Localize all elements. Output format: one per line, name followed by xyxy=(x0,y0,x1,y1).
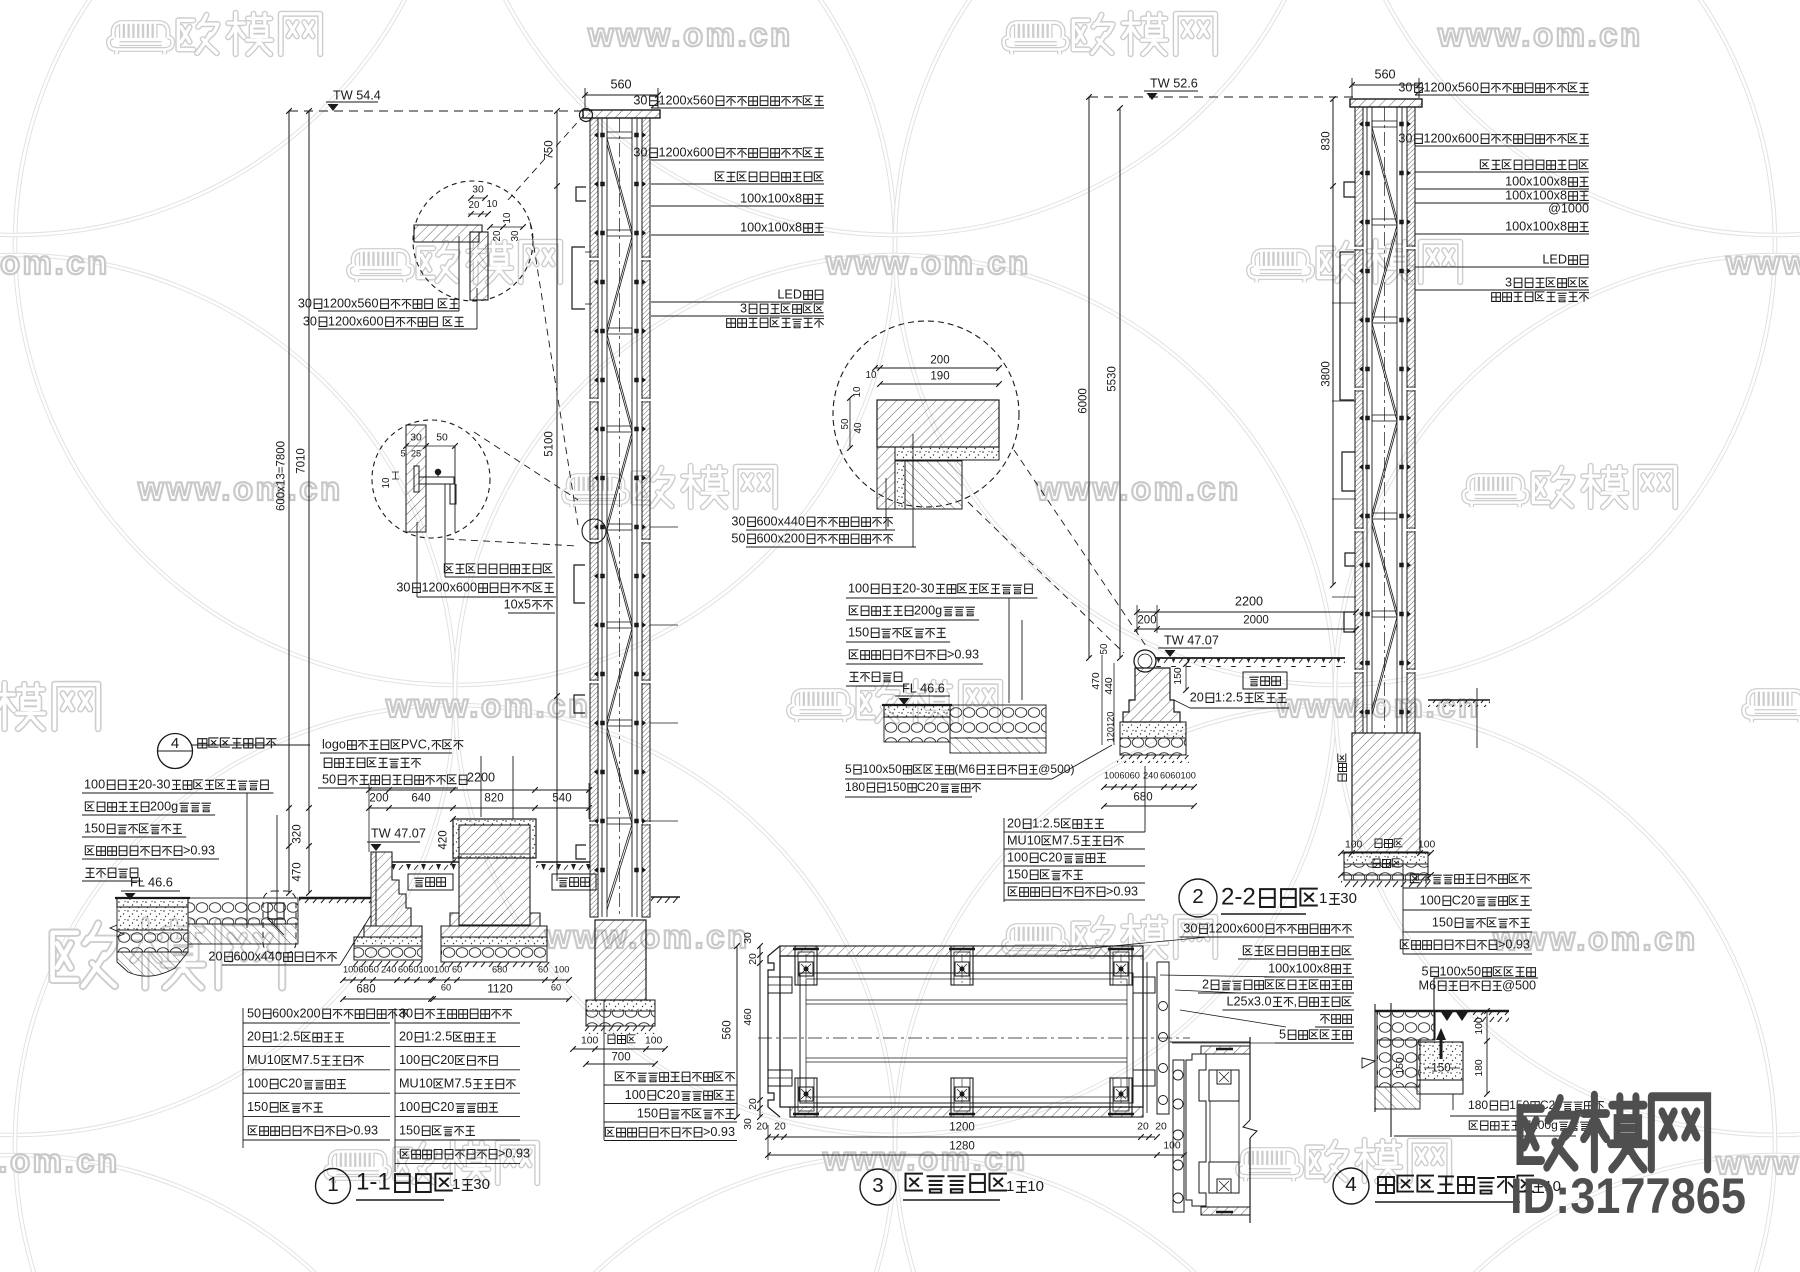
callout circle 4 xyxy=(158,734,193,769)
svg-text:>0.93: >0.93 xyxy=(947,647,979,661)
svg-text:320: 320 xyxy=(291,824,303,843)
svg-text:150: 150 xyxy=(399,1123,420,1137)
planting soil label 2 xyxy=(552,874,596,890)
svg-text:20: 20 xyxy=(748,1098,759,1110)
level marker TW 54.4 xyxy=(333,88,381,102)
label 干挂构件，详专业公司 xyxy=(715,172,823,182)
svg-text:640: 640 xyxy=(411,792,430,804)
label 2厚拉丝面不锈钢镀铜折弯造型 xyxy=(1202,977,1351,991)
svg-text:30: 30 xyxy=(1398,80,1412,94)
rotated detail top hatch xyxy=(1201,1046,1250,1054)
svg-text:@500: @500 xyxy=(1502,978,1536,992)
planting ground line xyxy=(1156,657,1345,659)
ground pavement left xyxy=(117,898,188,907)
svg-text:www.om.cn: www.om.cn xyxy=(825,244,1031,281)
stone panel left xyxy=(590,118,598,917)
svg-text:100: 100 xyxy=(848,581,869,595)
plan bolt plate top 1121 xyxy=(1110,946,1132,985)
svg-text:www.om.cn: www.om.cn xyxy=(1437,16,1643,53)
svg-text:20: 20 xyxy=(208,949,222,963)
level dashed line xyxy=(289,110,592,112)
bracket xyxy=(1344,612,1355,632)
label 3厚镀铜色不锈钢 xyxy=(1505,275,1588,289)
svg-text:20: 20 xyxy=(492,230,503,241)
svg-text:2-2: 2-2 xyxy=(1221,884,1256,911)
dimension line 7010 xyxy=(308,111,310,893)
dimension line 750 / 5100 xyxy=(556,111,558,881)
right strut stubs xyxy=(1332,302,1356,304)
svg-text:50: 50 xyxy=(731,531,745,545)
svg-text:460: 460 xyxy=(743,1008,754,1026)
svg-text:5: 5 xyxy=(400,449,405,459)
svg-text:20: 20 xyxy=(748,953,759,965)
svg-text:30: 30 xyxy=(399,1006,413,1020)
svg-text:150: 150 xyxy=(1432,915,1453,929)
svg-text:M7.5: M7.5 xyxy=(1052,833,1080,847)
detail A dims xyxy=(472,185,484,196)
svg-text:2: 2 xyxy=(1192,885,1204,908)
svg-text:www.om.cn: www.om.cn xyxy=(544,918,750,955)
svg-text:6000: 6000 xyxy=(1077,388,1089,414)
pedestal 1 foot xyxy=(364,926,422,937)
stone panel left xyxy=(1355,107,1363,733)
dimension line 6000 xyxy=(1088,97,1090,658)
svg-text:30: 30 xyxy=(298,296,312,310)
curb dims xyxy=(1099,643,1110,654)
label 5厚不锈钢收边 xyxy=(1279,1027,1351,1041)
label 20厚600x440 xyxy=(208,949,337,963)
svg-text:100x100x8: 100x100x8 xyxy=(1505,219,1567,233)
svg-text:100: 100 xyxy=(399,1053,420,1067)
svg-text:10x5: 10x5 xyxy=(504,597,531,611)
svg-text:6060100: 6060100 xyxy=(1160,771,1196,781)
detail B dims xyxy=(406,445,455,447)
right chord xyxy=(1396,107,1398,733)
svg-text:1200x600: 1200x600 xyxy=(1423,131,1479,145)
svg-text:540: 540 xyxy=(552,792,571,804)
svg-text:10: 10 xyxy=(487,199,498,210)
svg-text:10: 10 xyxy=(866,370,877,381)
svg-text:240: 240 xyxy=(381,965,396,975)
plan main rect xyxy=(780,956,1143,1107)
svg-text:3: 3 xyxy=(740,301,747,315)
svg-text:1200x600: 1200x600 xyxy=(421,580,477,594)
svg-text:1:2.5: 1:2.5 xyxy=(1215,690,1243,704)
svg-text:200g: 200g xyxy=(150,799,178,813)
dimension line 600x13=7800 xyxy=(288,111,290,893)
label @1000 xyxy=(1548,201,1589,215)
plan left dims 30/20/460/20/30 xyxy=(759,946,761,1117)
svg-text:C20: C20 xyxy=(431,1100,454,1114)
rotated detail stepped bracket xyxy=(1186,1054,1206,1206)
svg-text:180: 180 xyxy=(1468,1098,1488,1112)
svg-text:100: 100 xyxy=(399,1100,420,1114)
svg-text:1: 1 xyxy=(1006,1178,1014,1195)
pedestal 1 curb body xyxy=(376,852,411,926)
svg-text:100x50: 100x50 xyxy=(1440,964,1481,978)
svg-text:M7.5: M7.5 xyxy=(444,1076,472,1090)
svg-text:20: 20 xyxy=(247,1030,261,1044)
svg-text:100: 100 xyxy=(1474,1017,1485,1035)
bracket xyxy=(1345,553,1355,566)
svg-text:100x50: 100x50 xyxy=(862,762,902,776)
panel joints xyxy=(589,258,599,260)
stone panel right xyxy=(1407,107,1415,733)
svg-text:100: 100 xyxy=(554,965,569,975)
label waterproof mortar xyxy=(1190,690,1287,704)
svg-text:150: 150 xyxy=(1173,667,1184,685)
material table column 2 xyxy=(399,1006,512,1020)
svg-text:>0.93: >0.93 xyxy=(703,1125,735,1139)
svg-text:560: 560 xyxy=(610,77,631,91)
plan right end plate with bolts xyxy=(1146,962,1148,1113)
svg-text:150: 150 xyxy=(84,821,105,835)
label 由专业公司二次设计 xyxy=(1492,292,1589,302)
svg-text:30: 30 xyxy=(410,433,422,444)
mid material table xyxy=(1007,816,1104,830)
svg-text:ID:3177865: ID:3177865 xyxy=(1510,1168,1746,1224)
svg-text:100: 100 xyxy=(1418,840,1436,851)
svg-text:5100: 5100 xyxy=(543,431,555,457)
svg-text:1006060: 1006060 xyxy=(343,965,379,975)
svg-text:>0.93: >0.93 xyxy=(498,1147,530,1161)
svg-text:180: 180 xyxy=(1474,1059,1485,1077)
watermark background arcs xyxy=(15,0,895,685)
svg-text:100: 100 xyxy=(645,1036,663,1047)
svg-text:150: 150 xyxy=(247,1100,268,1114)
svg-text:30: 30 xyxy=(473,1176,490,1193)
svg-text:820: 820 xyxy=(484,792,503,804)
label 30厚1200x560黄金麻光面花岗岩干挂 xyxy=(1398,80,1588,94)
leader verticals xyxy=(246,793,248,928)
svg-text:100: 100 xyxy=(1345,840,1363,851)
curb body xyxy=(1123,668,1180,722)
svg-text:560: 560 xyxy=(1374,67,1395,81)
svg-text:C20: C20 xyxy=(1452,893,1475,907)
svg-text:100: 100 xyxy=(1420,893,1441,907)
svg-text:1006060: 1006060 xyxy=(1104,771,1140,781)
svg-text:50: 50 xyxy=(322,772,336,786)
svg-text:1:2.5: 1:2.5 xyxy=(272,1030,300,1044)
svg-text:www.om.cn: www.om.cn xyxy=(822,1140,1028,1177)
svg-text:www.om.cn: www.om.cn xyxy=(1035,470,1241,507)
detail A leader dashed xyxy=(508,115,584,200)
svg-text:5: 5 xyxy=(845,762,852,776)
label 干挂构件，详专业公司 xyxy=(1480,160,1588,170)
svg-text:200g: 200g xyxy=(914,603,942,617)
detail reference circle on column xyxy=(582,519,606,543)
node bolts xyxy=(1366,122,1370,126)
svg-text:4: 4 xyxy=(171,735,179,752)
svg-text:100: 100 xyxy=(1163,1141,1181,1152)
svg-text:150: 150 xyxy=(1395,1057,1406,1075)
curb bottom dims xyxy=(1104,771,1140,781)
svg-text:60: 60 xyxy=(441,983,451,993)
detail C dashed leaders xyxy=(1014,450,1148,649)
svg-text:MU10: MU10 xyxy=(247,1053,281,1067)
label 100x100x8方通 xyxy=(1505,174,1589,188)
pier dims xyxy=(581,1036,599,1047)
label 100x100x8方通 xyxy=(740,220,824,234)
dimension 560 top xyxy=(585,94,658,96)
svg-text:1: 1 xyxy=(1319,890,1327,907)
svg-text:5530: 5530 xyxy=(1106,366,1118,392)
bracket xyxy=(576,845,586,859)
svg-text:TW 54.4: TW 54.4 xyxy=(333,88,381,102)
svg-text:25: 25 xyxy=(411,449,421,459)
LED channel bracket xyxy=(572,247,585,309)
detail 4 bottom labels xyxy=(1452,1094,1454,1110)
level marker FL 46.6 xyxy=(130,875,173,889)
svg-text:440: 440 xyxy=(1104,677,1115,695)
svg-text:200: 200 xyxy=(930,354,949,366)
dimension line 5530 xyxy=(1119,108,1121,658)
detail C mortar xyxy=(895,447,999,460)
dimension 560 right xyxy=(1352,84,1419,86)
svg-text:10: 10 xyxy=(852,386,863,397)
pedestal 2 steps xyxy=(450,913,540,926)
svg-text:1200x560: 1200x560 xyxy=(323,296,379,310)
label 30厚1200x600黄金麻光面花岗岩干挂 xyxy=(633,145,823,159)
level dashed line mid xyxy=(1089,96,1356,98)
right column brackets xyxy=(1344,182,1355,197)
detail circle B xyxy=(372,420,490,538)
plan bottom hatch strip xyxy=(790,1107,1143,1117)
svg-text:www.om.cn: www.om.cn xyxy=(385,687,591,724)
svg-text:50: 50 xyxy=(1099,643,1110,654)
svg-text:@1000: @1000 xyxy=(1548,201,1589,215)
left chord xyxy=(601,118,603,917)
ground line right of wall xyxy=(1428,699,1490,701)
svg-text:www.om.cn: www.om.cn xyxy=(0,244,110,281)
planting soil label xyxy=(408,874,453,890)
detail B labels xyxy=(444,564,552,574)
plan inner rect xyxy=(800,973,1133,1103)
title 2 2-2剖面图 xyxy=(1179,879,1217,917)
svg-text:40: 40 xyxy=(853,422,864,433)
svg-text:10: 10 xyxy=(1027,1178,1044,1195)
dimension 2200 xyxy=(467,770,495,784)
planting ground right of pedestal2 xyxy=(536,861,590,863)
svg-text:3800: 3800 xyxy=(1320,361,1332,387)
foundation pier left column xyxy=(595,920,646,1000)
svg-text:20: 20 xyxy=(1155,1122,1167,1133)
svg-text:150: 150 xyxy=(637,1106,658,1120)
svg-text:3: 3 xyxy=(872,1174,884,1197)
right chord xyxy=(631,118,633,917)
svg-text:20: 20 xyxy=(1190,690,1204,704)
material table column 1 xyxy=(247,1006,409,1020)
svg-text:560: 560 xyxy=(721,1020,733,1039)
rotated end detail top line xyxy=(1170,1041,1250,1043)
svg-text:30: 30 xyxy=(731,514,745,528)
svg-text:100: 100 xyxy=(581,1036,599,1047)
svg-text:logo: logo xyxy=(322,737,346,751)
svg-text:1120: 1120 xyxy=(487,983,513,995)
label LED灯带 xyxy=(1542,252,1588,266)
svg-text:4: 4 xyxy=(1345,1173,1357,1196)
label 100x100x8方通 xyxy=(1505,219,1589,233)
svg-text:100: 100 xyxy=(434,965,449,975)
truss struts and diagonals xyxy=(607,132,632,138)
label 洗墙灯 xyxy=(1320,1015,1351,1024)
dimension 3800 xyxy=(1332,186,1334,585)
svg-text:30: 30 xyxy=(743,1118,754,1130)
svg-text:680: 680 xyxy=(356,983,375,995)
svg-text:100x100x8: 100x100x8 xyxy=(1505,188,1567,202)
dimension 830 xyxy=(1332,99,1334,186)
rotated detail bottom hatch xyxy=(1201,1207,1250,1215)
svg-text:>0.93: >0.93 xyxy=(1106,884,1138,898)
svg-text:100x100x8: 100x100x8 xyxy=(1505,174,1567,188)
svg-text:200: 200 xyxy=(1137,614,1156,626)
svg-text:420: 420 xyxy=(437,830,449,849)
svg-text:150: 150 xyxy=(848,625,869,639)
svg-text:470: 470 xyxy=(291,862,303,881)
top corner circle xyxy=(580,109,593,122)
svg-text:www.om.cn: www.om.cn xyxy=(587,16,793,53)
svg-text:1200x600: 1200x600 xyxy=(328,314,384,328)
label 30厚1200x600黄金麻光面花岗岩 xyxy=(1183,921,1352,935)
strut stub lines xyxy=(650,526,678,528)
svg-text:600x13=7800: 600x13=7800 xyxy=(275,441,287,511)
svg-text:7010: 7010 xyxy=(295,448,307,474)
svg-text:1: 1 xyxy=(452,1176,460,1193)
svg-text:>0.93: >0.93 xyxy=(1498,937,1530,951)
svg-text:600x440: 600x440 xyxy=(756,514,805,528)
detail 4 anchor bolt xyxy=(1440,1037,1443,1059)
planting ground left of pedestal2 xyxy=(392,861,459,863)
detail A labels xyxy=(298,296,459,310)
curb stone cap xyxy=(1134,650,1156,672)
svg-text:M7.5: M7.5 xyxy=(292,1053,320,1067)
svg-text:1:2.5: 1:2.5 xyxy=(424,1030,452,1044)
svg-text:C20: C20 xyxy=(917,780,939,794)
bracket xyxy=(1342,452,1355,491)
logo leader second line xyxy=(512,756,514,819)
detail C left stone strip xyxy=(877,447,895,509)
side brackets left column xyxy=(576,187,586,201)
detail B leader dashed xyxy=(474,432,578,500)
detail circle C xyxy=(833,321,1019,507)
mid annotation stack xyxy=(848,581,1032,595)
left annotation stack xyxy=(84,777,268,791)
svg-text:150: 150 xyxy=(1007,867,1028,881)
svg-text:600x440: 600x440 xyxy=(233,949,282,963)
plan centerline xyxy=(758,1037,1190,1039)
svg-text:FL 46.6: FL 46.6 xyxy=(902,681,945,695)
pier label stack xyxy=(615,1072,735,1082)
svg-text:60: 60 xyxy=(452,965,462,975)
svg-text:100: 100 xyxy=(247,1076,268,1090)
edge detail dashed box xyxy=(263,891,296,953)
right pier label stack xyxy=(1410,874,1530,884)
detail A cap stone hatched xyxy=(414,225,482,242)
svg-text:600x200: 600x200 xyxy=(272,1006,321,1020)
svg-text:1200x560: 1200x560 xyxy=(658,93,714,107)
wall column section 1-1: top cap xyxy=(583,110,660,118)
panel joints xyxy=(1354,247,1364,249)
svg-text:30: 30 xyxy=(633,145,647,159)
svg-text:20: 20 xyxy=(1007,816,1021,830)
rotated detail plate circles xyxy=(1173,1060,1184,1212)
svg-text:C20: C20 xyxy=(1039,850,1062,864)
pedestal 2 body xyxy=(459,825,530,925)
svg-text:TW 47.07: TW 47.07 xyxy=(1164,633,1219,647)
level marker FL 46.6 mid xyxy=(902,681,945,695)
title 4 不锈钢收边大样图 xyxy=(1333,1168,1369,1204)
svg-text:30: 30 xyxy=(510,230,521,241)
plan top hatch strip xyxy=(780,946,1143,956)
plan bottom dims xyxy=(756,1122,768,1133)
truss struts and diagonals xyxy=(1372,121,1397,127)
svg-text:190: 190 xyxy=(930,370,949,382)
svg-text:>0.93: >0.93 xyxy=(183,843,215,857)
paving edge dark strip left of curb xyxy=(299,897,371,900)
svg-text:180: 180 xyxy=(845,780,865,794)
svg-text:10: 10 xyxy=(502,212,513,223)
plan bolt plate bottom 962 xyxy=(951,1078,973,1117)
site logo 欧模网 xyxy=(1520,1095,1708,1169)
svg-text:FL 46.6: FL 46.6 xyxy=(130,875,173,889)
label 100x100x8方通 xyxy=(1268,961,1352,975)
svg-text:20: 20 xyxy=(774,1122,786,1133)
pedestal 2 cap shell xyxy=(453,819,536,858)
detail A vertical stone xyxy=(470,232,488,300)
small dims pedestal 2 xyxy=(434,965,449,975)
plan bolt plate top 962 xyxy=(951,946,973,985)
right LED channel xyxy=(1340,252,1354,400)
svg-text:200: 200 xyxy=(369,792,388,804)
pedestal 1 curb stone facing strip xyxy=(371,852,376,926)
detail 4 stone column xyxy=(1374,1004,1376,1112)
plan leader lines xyxy=(1060,937,1208,951)
dimension 320 xyxy=(291,824,303,843)
svg-text:20-30: 20-30 xyxy=(138,777,170,791)
centerline xyxy=(619,118,621,917)
title 3 放大平面图 xyxy=(860,1169,896,1205)
mid gravel band xyxy=(950,705,1046,738)
detail B stone panel xyxy=(406,425,426,532)
label 100x100x8方通 xyxy=(1505,188,1589,202)
plan bolt plate top 806 xyxy=(795,946,817,985)
svg-text:3: 3 xyxy=(1505,275,1512,289)
dimension 420 xyxy=(437,830,449,849)
svg-text:100: 100 xyxy=(1007,850,1028,864)
svg-text:30: 30 xyxy=(743,932,754,944)
svg-text:830: 830 xyxy=(1320,131,1332,150)
watermarks xyxy=(109,23,173,55)
detail C lower block xyxy=(905,461,962,509)
svg-text:5: 5 xyxy=(1279,1027,1286,1041)
svg-text:100x100x8: 100x100x8 xyxy=(740,220,802,234)
stone panel right xyxy=(642,118,650,917)
svg-text:30: 30 xyxy=(396,580,410,594)
level marker TW 47.07 mid xyxy=(1164,633,1219,647)
svg-text:50: 50 xyxy=(436,433,448,444)
node bolts xyxy=(601,133,605,137)
svg-text:750: 750 xyxy=(543,140,555,159)
svg-text:20: 20 xyxy=(1137,1122,1149,1133)
svg-text:100x100x8: 100x100x8 xyxy=(1268,961,1330,975)
svg-text:100: 100 xyxy=(84,777,105,791)
detail C dims xyxy=(930,354,949,366)
svg-text:1200x600: 1200x600 xyxy=(1208,921,1264,935)
svg-text:20: 20 xyxy=(469,200,480,211)
right wall column top cap xyxy=(1350,99,1422,107)
ground left break mark xyxy=(110,925,124,937)
svg-text:20: 20 xyxy=(756,1122,768,1133)
